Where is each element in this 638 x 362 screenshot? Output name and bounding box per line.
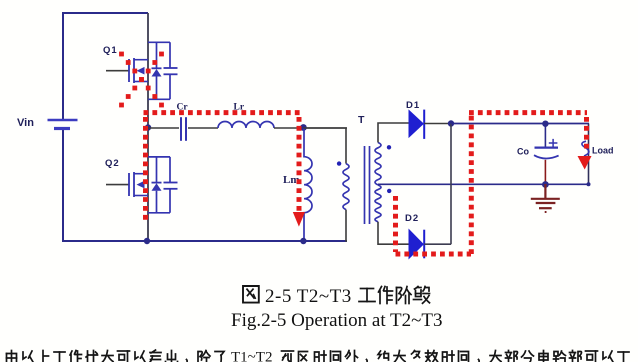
node half-bridge midpoint: [145, 124, 151, 130]
red arrow Lm current: [293, 212, 305, 227]
wire Lr to node: [274, 127, 347, 129]
wire red path output top: [469, 110, 587, 115]
transformer core: [365, 146, 370, 224]
wire primary bottom lead: [346, 210, 347, 241]
inductor Lr: [218, 122, 274, 128]
wire red path bottom horizontal: [396, 252, 472, 257]
svg-text:Q2: Q2: [105, 158, 120, 169]
battery Vin: [48, 120, 78, 129]
red X over Q1: [119, 52, 164, 108]
node Co top: [542, 121, 548, 127]
node primary dot: [337, 161, 341, 165]
wire resonant tank: [148, 127, 179, 129]
transformer secondary upper winding: [375, 143, 381, 185]
diode D2: [409, 230, 424, 259]
inductor Lm: [304, 128, 312, 241]
wire D2 cathode up: [424, 124, 451, 245]
capacitor Co: [534, 124, 559, 185]
transformer T primary winding: [343, 164, 349, 210]
wire red path left loop horizontal: [144, 110, 302, 115]
wire output top rail: [451, 123, 589, 125]
svg-text:Fig.2-5 Operation at T2~T3: Fig.2-5 Operation at T2~T3: [231, 310, 443, 331]
wire red path load drop: [584, 117, 589, 150]
node Q2 leg bottom: [144, 238, 150, 244]
wire left rail upper: [62, 12, 64, 120]
wire red path right riser: [469, 113, 474, 254]
transistor Q1: [106, 58, 148, 83]
svg-text:Q1: Q1: [103, 45, 118, 56]
capacitor Q2 snubber: [164, 183, 178, 189]
wire red path Lm vertical: [297, 117, 302, 211]
node tank to Lm: [300, 124, 307, 131]
wire secondary bottom to D2: [378, 222, 409, 244]
resistor load: [588, 124, 590, 185]
svg-text:D1: D1: [406, 100, 420, 111]
svg-text:Vin: Vin: [17, 117, 34, 129]
wire primary top lead: [303, 128, 346, 164]
wire secondary top to D1: [378, 123, 409, 143]
diode D1: [409, 110, 424, 139]
node Co bottom: [542, 181, 549, 188]
wire red path secondary vertical: [393, 196, 398, 252]
wire D1 cathode: [424, 123, 451, 125]
node load bottom: [587, 182, 591, 186]
node secondary upper dot: [387, 145, 391, 149]
svg-text:T: T: [358, 114, 365, 126]
transformer secondary lower winding: [375, 185, 381, 222]
transistor Q2: [106, 172, 148, 197]
node Lm bottom: [300, 238, 306, 244]
diode Q1 body: [148, 42, 170, 99]
caption line 1: [243, 286, 430, 304]
capacitor Q1 snubber: [164, 68, 178, 74]
ground: [531, 184, 560, 212]
node secondary lower dot: [387, 189, 391, 193]
bottom cut text: [7, 350, 630, 362]
svg-text:T1~T2: T1~T2: [231, 350, 272, 362]
wire red path Q2 leg vertical: [143, 117, 148, 222]
red arrow load current: [578, 156, 592, 170]
svg-text:Load: Load: [592, 146, 614, 156]
wire center tap to output return: [378, 183, 589, 185]
wire top rail: [63, 12, 148, 14]
diode Q2 body: [148, 157, 170, 213]
node D1 out: [448, 120, 454, 126]
wire Cr to Lr: [188, 127, 218, 129]
wire half-bridge vertical: [147, 13, 149, 241]
svg-text:2-5 T2~T3: 2-5 T2~T3: [265, 286, 352, 307]
svg-text:Co: Co: [517, 147, 529, 157]
capacitor Cr: [181, 117, 186, 141]
wire bottom rail: [62, 240, 347, 242]
svg-text:D2: D2: [405, 213, 419, 224]
wire left rail lower: [62, 129, 64, 241]
